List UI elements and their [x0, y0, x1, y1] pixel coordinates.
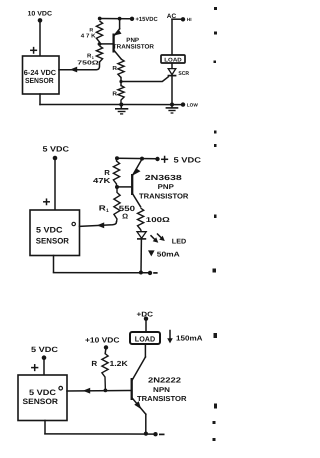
wire between collector resistors / gate tap [120, 78, 122, 86]
sensor U2 5 VDC SENSOR box [30, 210, 80, 256]
wire 5 VDC down to sensor 2 [54, 158, 56, 210]
resistor R 4.7K [81, 21, 103, 44]
ground symbol (under resistor chain) [115, 105, 128, 114]
wire base of Q2 [117, 186, 131, 188]
node +10 VDC supply [85, 335, 120, 349]
wire AC line down to load [171, 19, 173, 55]
wire load down to collector [144, 344, 146, 357]
wire base of Q1 [100, 43, 113, 45]
arrow on sensor 3 output wire [83, 388, 90, 394]
page margin marks (cut-off print at right edge) [213, 7, 218, 441]
wire sensor output to resistor R1 [59, 62, 100, 70]
svg-text:R: R [87, 53, 91, 59]
load box (AC load) [161, 55, 185, 64]
svg-text:Ω: Ω [122, 213, 128, 220]
svg-text:2N3638: 2N3638 [145, 173, 182, 182]
svg-text:5 VDC: 5 VDC [36, 225, 63, 234]
node junction LED to rail [139, 271, 143, 275]
resistor R1 750 ohm [77, 46, 102, 67]
node junction 1.2K to base wire [104, 389, 108, 393]
wire LED cathode down to rail [140, 239, 142, 273]
node junction resistor chain to rail [119, 103, 123, 107]
node junction SCR cathode to rail [170, 103, 174, 107]
wire base of Q3 [67, 390, 131, 393]
resistor R 47K (circuit 2) [93, 158, 120, 187]
svg-text:TRANSISTOR: TRANSISTOR [137, 394, 187, 403]
svg-text:SENSOR: SENSOR [23, 397, 59, 406]
svg-text:+15VDC: +15VDC [136, 16, 159, 23]
SCR [168, 69, 189, 105]
svg-text:1.2K: 1.2K [110, 359, 129, 368]
resistor 100 ohm (collector) [138, 208, 171, 232]
svg-text:TRANSISTOR: TRANSISTOR [139, 192, 189, 201]
load box (DC load) [130, 332, 160, 344]
plus polarity sign at sensor 3 input [32, 365, 38, 371]
svg-text:1: 1 [92, 56, 94, 60]
svg-text:LOAD: LOAD [164, 58, 182, 64]
svg-text:5 VDC: 5 VDC [43, 145, 70, 154]
wire bottom rail circuit 2 [54, 256, 151, 273]
svg-text:SENSOR: SENSOR [25, 76, 54, 85]
wire bottom rail circuit 3 [45, 421, 156, 435]
node gate tap junction [119, 80, 122, 83]
svg-text:HI: HI [187, 17, 192, 22]
svg-text:R: R [91, 359, 98, 368]
svg-text:50mA: 50mA [157, 251, 180, 258]
current arrow 150 mA [167, 331, 202, 344]
wire load to SCR anode [171, 63, 173, 68]
sensor U3 5 VDC SENSOR box [18, 375, 67, 421]
wire +DC down to load [145, 319, 147, 332]
node 5 VDC supply terminal (circuit 3) [31, 345, 59, 360]
svg-text:4 7 K: 4 7 K [81, 34, 96, 40]
svg-text:LED: LED [172, 238, 186, 245]
plus polarity sign at sensor input [31, 48, 37, 53]
wire 5 VDC down to sensor 3 [43, 358, 45, 375]
svg-text:TRANSISTOR: TRANSISTOR [113, 44, 155, 51]
svg-text:550: 550 [119, 204, 135, 213]
sensor U1 6-24 VDC SENSOR box [23, 56, 60, 94]
transistor Q2 2N3638 PNP [132, 159, 189, 207]
wire from 10 VDC terminal down to sensor [39, 20, 41, 56]
node +DC supply [137, 311, 154, 321]
ground symbol (under SCR cathode) [166, 105, 179, 114]
svg-text:5 VDC: 5 VDC [31, 345, 59, 354]
node AC line HI terminal [167, 13, 192, 22]
svg-text:47K: 47K [93, 176, 111, 185]
svg-text:2N2222: 2N2222 [148, 375, 181, 384]
svg-text:5 VDC: 5 VDC [174, 156, 202, 165]
wire to SCR gate [121, 77, 168, 82]
resistor R 1.2K [91, 347, 128, 390]
svg-text:SENSOR: SENSOR [36, 236, 69, 245]
node minus terminal circuit 2 [148, 271, 158, 275]
arrow (signal direction) on sensor output wire [70, 67, 77, 73]
current label 50 mA [148, 250, 180, 258]
svg-text:LOAD: LOAD [135, 335, 156, 344]
svg-text:PNP: PNP [158, 184, 175, 191]
arrow on sensor 2 output wire [97, 222, 104, 228]
svg-text:5 VDC: 5 VDC [29, 388, 56, 397]
+15VDC rail [98, 16, 159, 23]
node minus terminal circuit 3 [153, 432, 164, 436]
transistor Q1 PNP [113, 19, 155, 59]
resistor R1 550 ohm (circuit 2) [99, 187, 135, 222]
node LOW terminal [181, 102, 199, 107]
resistor R (lower, to ground) [112, 86, 124, 105]
wire bottom rail circuit 1 [40, 94, 183, 105]
node junction R/R1/base [98, 42, 102, 46]
node 5 VDC supply terminal [43, 145, 70, 161]
+5 VDC rail circuit 2 [115, 156, 202, 165]
svg-text:SCR: SCR [178, 71, 189, 77]
plus polarity sign at sensor 2 input [44, 199, 49, 204]
svg-text:R: R [89, 27, 93, 33]
node 10 VDC supply terminal [28, 11, 53, 23]
svg-text:NPN: NPN [153, 387, 170, 394]
svg-text:10 VDC: 10 VDC [28, 11, 53, 18]
node junction emitter to rail [144, 432, 148, 436]
svg-text:750Ω: 750Ω [77, 60, 99, 67]
svg-text:1: 1 [106, 208, 109, 214]
svg-text:LOW: LOW [187, 103, 199, 108]
transistor Q3 2N2222 NPN [132, 357, 188, 434]
svg-text:150mA: 150mA [176, 333, 203, 342]
svg-text:+10 VDC: +10 VDC [85, 335, 120, 344]
LED D1 [137, 232, 186, 246]
wire sensor 2 output to R1 [80, 222, 117, 227]
resistor R (collector upper) [112, 59, 124, 78]
node junction 47K/550/base [115, 185, 119, 189]
svg-text:100Ω: 100Ω [146, 217, 171, 224]
